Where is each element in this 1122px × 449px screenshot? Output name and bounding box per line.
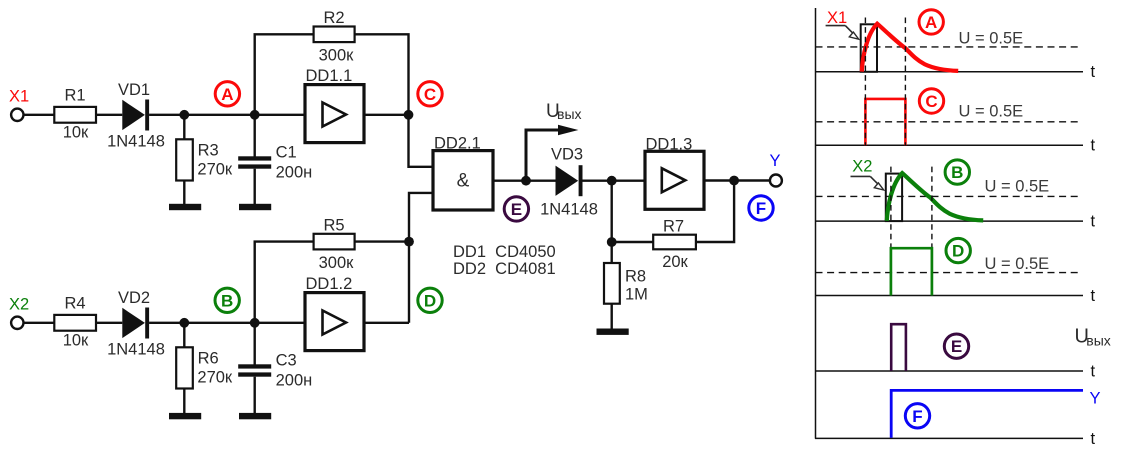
node circle C: [919, 89, 943, 113]
wire C3 to ground: [253, 377, 255, 413]
wire VD2 to DD1.2: [149, 322, 305, 324]
resistor R2: [314, 27, 355, 43]
junction C: [404, 110, 414, 120]
wire R8 to ground: [611, 304, 613, 329]
svg-text:t: t: [1091, 137, 1096, 155]
svg-text:270к: 270к: [197, 161, 233, 179]
threshold dashed row C: [816, 121, 1079, 123]
wire DD1.1 out to node C: [364, 114, 409, 116]
wire DD1.3 out to Y: [704, 179, 770, 181]
trace F step (blue): [891, 390, 1083, 437]
svg-text:VD2: VD2: [118, 289, 150, 307]
wire R5 right: [355, 240, 409, 242]
wire R1 to VD1: [96, 114, 122, 116]
wire to R3: [183, 115, 185, 140]
wire VD1 to DD1.1: [149, 114, 305, 116]
threshold dashed row D: [816, 272, 1079, 274]
svg-text:U = 0.5E: U = 0.5E: [985, 255, 1050, 273]
svg-text:X1: X1: [9, 88, 29, 106]
node D: [418, 288, 442, 312]
svg-text:t: t: [1091, 213, 1096, 231]
svg-text:A: A: [925, 13, 937, 32]
trace B curve (green): [887, 173, 983, 221]
diode VD2: [122, 308, 145, 338]
terminal X1: [11, 109, 23, 121]
svg-text:E: E: [511, 200, 522, 219]
wire R7 to output: [696, 181, 734, 243]
junction R3 tap: [179, 110, 189, 120]
svg-text:1M: 1M: [625, 285, 648, 303]
Uout arrow: [526, 101, 582, 181]
wire to R6: [183, 323, 185, 348]
wire VD3 to DD1.3: [583, 179, 646, 181]
left axis: [815, 8, 817, 439]
trace D pulse (green): [891, 248, 932, 295]
svg-text:X2: X2: [9, 296, 29, 314]
svg-text:DD2.1: DD2.1: [434, 134, 481, 152]
svg-text:U = 0.5E: U = 0.5E: [959, 102, 1024, 120]
wire DD1.2 out: [364, 322, 409, 324]
trace E pulse (purple): [891, 324, 906, 371]
svg-text:R1: R1: [64, 87, 85, 105]
wire X1 to R1: [24, 114, 55, 116]
svg-text:C1: C1: [276, 144, 297, 162]
svg-text:R4: R4: [64, 295, 85, 313]
TIMING PANEL: [815, 8, 1111, 448]
ground (R8): [597, 329, 629, 335]
svg-text:270к: 270к: [197, 369, 233, 387]
wire B node to C3: [253, 323, 255, 365]
svg-text:C3: C3: [276, 352, 297, 370]
node circle A: [919, 10, 943, 34]
capacitor C1: [238, 156, 271, 160]
svg-text:R5: R5: [323, 217, 344, 235]
svg-text:вых: вых: [1086, 333, 1111, 349]
svg-text:200н: 200н: [276, 164, 313, 182]
svg-text:X2: X2: [852, 157, 872, 175]
svg-text:U = 0.5E: U = 0.5E: [985, 178, 1050, 196]
resistor R6: [176, 347, 193, 388]
dashed marker x1 fall: [904, 18, 906, 146]
dashed marker x1 rise: [864, 18, 866, 146]
svg-text:20к: 20к: [662, 253, 688, 271]
node C: [418, 82, 442, 106]
svg-text:R2: R2: [323, 9, 344, 27]
trace A curve (red): [862, 24, 958, 72]
svg-text:t: t: [1091, 362, 1096, 380]
junction Uout tap: [521, 176, 531, 186]
buffer DD1.3: [645, 135, 704, 209]
baseline row C: [815, 144, 1083, 146]
svg-text:DD1 CD4050: DD1 CD4050: [453, 243, 556, 261]
svg-text:t: t: [1091, 287, 1096, 305]
svg-text:F: F: [912, 407, 922, 426]
terminal Y: [770, 175, 782, 187]
junction R5 tap: [404, 237, 414, 247]
resistor R4: [54, 315, 96, 331]
node circle D: [946, 238, 970, 262]
svg-text:10к: 10к: [63, 332, 89, 350]
junction R8 tap: [607, 176, 617, 186]
wire R6 to ground: [183, 389, 185, 414]
baseline row A: [815, 71, 1083, 73]
wire DD2.1 out to VD3: [493, 179, 556, 181]
baseline row D: [815, 295, 1083, 297]
svg-text:300к: 300к: [319, 47, 355, 65]
svg-text:1N4148: 1N4148: [107, 340, 165, 358]
node circle F: [905, 404, 929, 428]
svg-text:DD1.3: DD1.3: [646, 135, 693, 153]
node A: [215, 82, 239, 106]
svg-text:DD1.2: DD1.2: [306, 275, 353, 293]
svg-text:10к: 10к: [63, 124, 89, 142]
node E: [504, 197, 528, 221]
baseline row B: [815, 220, 1083, 222]
terminal X2: [11, 317, 23, 329]
input pulse (X1): [861, 24, 877, 72]
svg-text:R3: R3: [198, 142, 219, 160]
resistor R7: [653, 235, 696, 250]
svg-text:E: E: [951, 337, 962, 356]
junction R7 right: [729, 176, 739, 186]
svg-text:t: t: [1091, 63, 1096, 81]
svg-text:C: C: [925, 92, 937, 111]
wire R4 to VD2: [96, 322, 122, 324]
wire C1 to ground: [253, 169, 255, 204]
svg-text:R8: R8: [625, 268, 646, 286]
dashed marker x2 fall: [931, 167, 933, 248]
threshold dashed row B: [816, 195, 1079, 197]
junction B / C3 tap: [250, 318, 260, 328]
svg-text:DD2 CD4081: DD2 CD4081: [453, 260, 556, 278]
node circle B: [945, 160, 969, 184]
buffer DD1.2: [305, 275, 364, 351]
diode VD1: [122, 100, 145, 130]
svg-text:&: &: [457, 171, 470, 192]
svg-text:t: t: [1091, 430, 1096, 448]
baseline row E: [815, 370, 1083, 372]
junction A / C1 tap: [250, 110, 260, 120]
svg-text:вых: вых: [557, 106, 582, 122]
AND gate DD2.1: [433, 134, 493, 210]
resistor R1: [54, 107, 96, 123]
svg-text:B: B: [951, 163, 963, 182]
svg-text:C: C: [424, 85, 436, 104]
junction R6 tap: [179, 318, 189, 328]
wire R2 feedback left: [255, 34, 314, 115]
wire R5 feedback left: [255, 242, 314, 323]
node F: [749, 196, 773, 220]
ground (C1): [239, 204, 271, 210]
svg-text:VD3: VD3: [551, 146, 583, 164]
wire X2 to R4: [24, 322, 55, 324]
wire R2 right to DD2.1 input1: [355, 34, 433, 167]
wire DD2.1 input2 from lower channel: [409, 193, 433, 323]
junction R7/R8: [607, 237, 617, 247]
resistor R5: [314, 234, 355, 250]
X2 leader arrow: [851, 176, 884, 190]
input pulse (X2): [886, 174, 902, 222]
label Uout (trace): [1075, 326, 1111, 349]
svg-text:Y: Y: [1090, 389, 1101, 407]
svg-text:Y: Y: [769, 152, 780, 170]
svg-text:D: D: [424, 291, 436, 310]
svg-text:DD1.1: DD1.1: [306, 67, 353, 85]
svg-text:U = 0.5E: U = 0.5E: [959, 30, 1024, 48]
wire A node to C1: [253, 115, 255, 157]
wire to R7: [612, 241, 654, 243]
svg-text:1N4148: 1N4148: [540, 201, 598, 219]
svg-text:1N4148: 1N4148: [107, 132, 165, 150]
svg-text:200н: 200н: [276, 372, 313, 390]
X1 leader arrow: [826, 26, 859, 40]
svg-text:A: A: [221, 85, 233, 104]
node B: [215, 288, 239, 312]
buffer DD1.1: [305, 67, 364, 143]
resistor R8: [604, 263, 620, 304]
ground (R6): [169, 413, 201, 419]
node circle E: [944, 334, 968, 358]
svg-text:300к: 300к: [319, 254, 355, 272]
svg-text:VD1: VD1: [118, 81, 150, 99]
capacitor C3: [238, 364, 271, 368]
svg-text:R6: R6: [198, 350, 219, 368]
diode VD3: [556, 166, 579, 196]
svg-text:B: B: [221, 291, 233, 310]
baseline row F: [815, 437, 1083, 439]
wire junction down to R7/R8: [611, 181, 613, 263]
wire R3 to ground: [183, 181, 185, 205]
resistor R3: [176, 139, 193, 180]
threshold dashed row A: [816, 46, 1079, 48]
svg-text:F: F: [756, 199, 766, 218]
ground (R3): [169, 204, 201, 210]
svg-text:D: D: [952, 242, 964, 261]
svg-text:R7: R7: [663, 218, 684, 236]
svg-text:X1: X1: [827, 9, 847, 27]
ground (C3): [239, 413, 271, 419]
trace C pulse (red): [865, 99, 905, 145]
dashed marker x2 rise: [890, 167, 892, 248]
